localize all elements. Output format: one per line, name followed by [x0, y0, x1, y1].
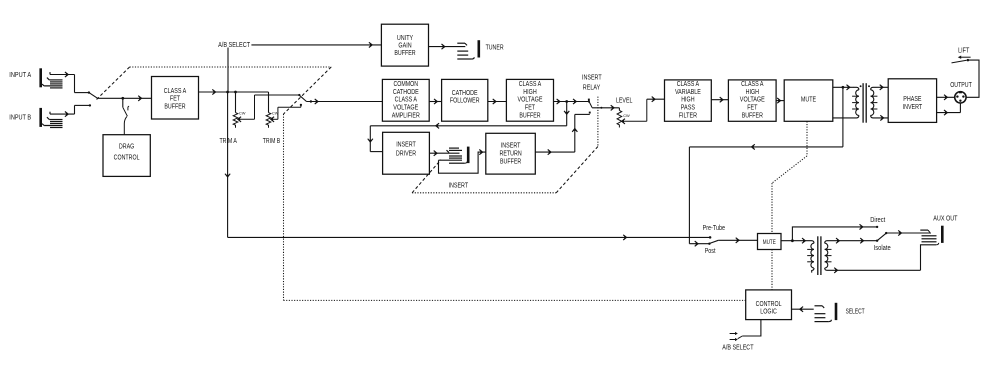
svg-text:LEVEL: LEVEL: [616, 98, 633, 105]
svg-text:INVERT: INVERT: [903, 104, 923, 111]
svg-text:INPUT A: INPUT A: [9, 72, 31, 79]
svg-text:MUTE: MUTE: [801, 96, 816, 103]
svg-text:VOLTAGE: VOLTAGE: [393, 105, 418, 112]
svg-text:DRAG: DRAG: [119, 144, 134, 151]
svg-text:CW: CW: [272, 110, 279, 115]
svg-text:VOLTAGE: VOLTAGE: [740, 97, 765, 104]
svg-text:BUFFER: BUFFER: [519, 113, 540, 120]
svg-text:BUFFER: BUFFER: [394, 50, 415, 57]
svg-text:Direct: Direct: [870, 217, 885, 224]
svg-text:INSERT: INSERT: [449, 183, 469, 190]
svg-text:INSERT: INSERT: [582, 74, 602, 81]
svg-text:CLASS A: CLASS A: [519, 81, 542, 88]
svg-text:GAIN: GAIN: [398, 43, 411, 50]
svg-text:Pre-Tube: Pre-Tube: [703, 225, 725, 232]
svg-text:AUX OUT: AUX OUT: [933, 215, 958, 222]
svg-text:VARIABLE: VARIABLE: [675, 89, 701, 96]
svg-text:SELECT: SELECT: [846, 308, 866, 315]
svg-text:CLASS A: CLASS A: [677, 81, 700, 88]
svg-text:CW: CW: [239, 110, 246, 115]
svg-text:PHASE: PHASE: [903, 96, 921, 103]
svg-text:FET: FET: [525, 105, 536, 112]
svg-text:DRIVER: DRIVER: [396, 150, 416, 157]
svg-text:FILTER: FILTER: [679, 113, 697, 120]
svg-text:FOLLOWER: FOLLOWER: [450, 98, 480, 105]
svg-text:MUTE: MUTE: [763, 239, 776, 246]
svg-text:TUNER: TUNER: [486, 45, 504, 52]
svg-text:AMPLIFIER: AMPLIFIER: [392, 113, 420, 120]
svg-text:INPUT B: INPUT B: [9, 114, 31, 121]
svg-text:CLASS A: CLASS A: [395, 97, 418, 104]
svg-text:BUFFER: BUFFER: [742, 113, 763, 120]
svg-text:CATHODE: CATHODE: [452, 90, 478, 97]
svg-text:CLASS A: CLASS A: [164, 88, 187, 95]
svg-text:CONTROL: CONTROL: [114, 154, 140, 161]
svg-text:BUFFER: BUFFER: [500, 159, 521, 166]
svg-text:VOLTAGE: VOLTAGE: [518, 97, 543, 104]
svg-text:FET: FET: [747, 105, 758, 112]
svg-text:PASS: PASS: [681, 105, 695, 112]
svg-text:A/B SELECT: A/B SELECT: [218, 42, 251, 49]
svg-text:BUFFER: BUFFER: [164, 104, 185, 111]
svg-text:INSERT: INSERT: [501, 143, 521, 150]
svg-text:CATHODE: CATHODE: [393, 89, 419, 96]
svg-text:RETURN: RETURN: [500, 151, 522, 158]
svg-text:Isolate: Isolate: [874, 245, 891, 252]
svg-text:Post: Post: [705, 248, 716, 255]
svg-text:TRIM A: TRIM A: [220, 138, 238, 145]
svg-text:A/B SELECT: A/B SELECT: [722, 345, 754, 352]
svg-text:RELAY: RELAY: [583, 85, 601, 92]
svg-text:OUTPUT: OUTPUT: [950, 82, 972, 89]
svg-text:CW: CW: [623, 113, 630, 118]
svg-text:COMMON: COMMON: [394, 81, 419, 88]
svg-text:HIGH: HIGH: [681, 97, 694, 104]
svg-text:TRIM B: TRIM B: [263, 138, 281, 145]
svg-text:HIGH: HIGH: [746, 89, 759, 96]
svg-text:CLASS A: CLASS A: [741, 81, 764, 88]
svg-text:LOGIC: LOGIC: [760, 309, 777, 316]
svg-text:HIGH: HIGH: [523, 89, 536, 96]
svg-text:FET: FET: [170, 96, 181, 103]
svg-text:INSERT: INSERT: [396, 142, 416, 149]
svg-text:UNITY: UNITY: [397, 35, 413, 42]
svg-text:CONTROL: CONTROL: [756, 301, 782, 308]
svg-text:LIFT: LIFT: [958, 48, 970, 55]
